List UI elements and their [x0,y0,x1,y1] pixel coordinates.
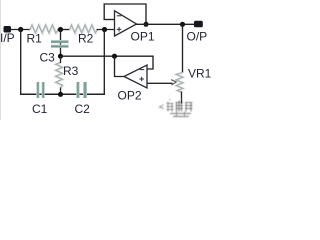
wire OP1 output to O/P [136,23,195,25]
wire OP1 minus stub [104,19,115,21]
wire R2 to OP1 plus input [97,29,115,31]
svg-text:R2: R2 [78,32,94,46]
svg-text:R3: R3 [63,64,79,78]
terminal I/P [4,26,12,33]
capacitor C3 [51,40,69,48]
node E [112,54,117,59]
wire VR1 bottom lead [181,92,183,104]
svg-text:C1: C1 [32,102,48,116]
node C [102,27,107,32]
resistor R1 [30,25,59,34]
wire node B down through C3 to node D [60,30,62,57]
resistor R2 [70,25,99,34]
wire right vertical from node C to bottom rail [103,30,105,95]
svg-text:OP2: OP2 [118,89,142,103]
wire mid rail node D to OP2 minus loop [61,56,154,69]
node A [18,27,23,32]
watermark [159,99,193,117]
wiper arrow of VR1 [171,80,176,85]
node G [180,22,185,27]
wire OP2 plus input to VR1 wiper [147,82,173,84]
potentiometer VR1 [176,73,184,93]
svg-text:R1: R1 [27,32,43,46]
op-amp U1 OP1 [115,11,137,36]
svg-text:C3: C3 [40,51,56,65]
wire OP1 feedback loop [104,4,146,24]
wire node G down to VR1 [182,24,184,73]
left edge artifact line [0,0,2,120]
node H [58,92,63,97]
capacitor C2 [76,82,87,98]
node F [144,22,149,27]
wire R3 bottom lead [60,88,62,95]
svg-text:I/P: I/P [0,31,15,45]
svg-text:OP1: OP1 [131,30,155,44]
node D [58,54,63,59]
svg-text:O/P: O/P [187,30,208,44]
wire left vertical from node A down [20,30,22,95]
op-amp U2 OP2 [124,65,147,88]
node B [58,27,63,32]
svg-text:VR1: VR1 [188,67,212,81]
resistor R3 [56,63,63,89]
wire R3 top lead [60,56,62,63]
terminal O/P [194,21,203,28]
wire bottom rail [20,93,105,95]
svg-text:C2: C2 [75,102,91,116]
wire R1 to R2 [58,29,71,31]
capacitor C1 [36,82,44,98]
wire node E down to OP2 output [115,56,125,76]
wire input to node A to R1 [11,29,31,31]
